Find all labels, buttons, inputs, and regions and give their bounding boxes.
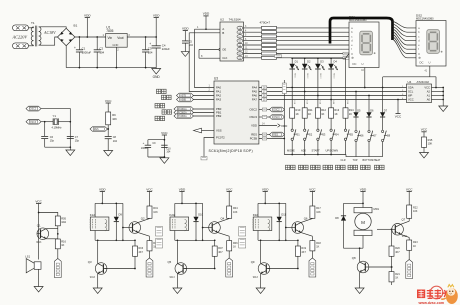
- svg-text:4K7: 4K7: [395, 251, 400, 254]
- U2 output pin QG: [237, 52, 243, 55]
- label contacts K2A lower: [156, 239, 163, 249]
- svg-text:VCC: VCC: [105, 99, 112, 103]
- svg-text:R16: R16: [61, 240, 66, 244]
- flag RES at MCU: [259, 134, 270, 136]
- svg-text:S5: S5: [350, 132, 354, 136]
- label heat alarm chinese: [157, 89, 161, 93]
- wire segment QA to DS1: [277, 27, 350, 29]
- resistor cell K1A emitter: [147, 241, 152, 251]
- svg-text:1K: 1K: [413, 245, 416, 248]
- svg-text:Q5: Q5: [168, 260, 172, 264]
- svg-text:K1A: K1A: [90, 213, 95, 217]
- svg-text:VDD: VDD: [251, 124, 257, 128]
- resistor R12 1K: [315, 108, 320, 118]
- svg-text:VDD: VDD: [84, 13, 91, 17]
- svg-text:Q1: Q1: [37, 223, 41, 227]
- svg-text:LS1: LS1: [25, 255, 30, 259]
- capacitor C8 104: [105, 136, 112, 138]
- connector J1 AC input line: [13, 25, 29, 31]
- svg-text:4.19MHz: 4.19MHz: [52, 127, 63, 130]
- svg-text:START: START: [312, 148, 321, 152]
- ground decoupling: [160, 158, 169, 164]
- svg-text:470Ω×7: 470Ω×7: [260, 20, 271, 24]
- wire U2 to MCU PA0: [195, 29, 215, 87]
- U2 output pin QC: [237, 35, 243, 38]
- svg-text:D9: D9: [119, 213, 123, 217]
- ground C5: [181, 52, 189, 57]
- wire U2 to MCU PA1: [189, 33, 214, 92]
- diode D5: [353, 112, 358, 117]
- U2 output pin QH: [237, 56, 243, 59]
- svg-text:Q3: Q3: [88, 260, 92, 264]
- resistor RN3: [262, 35, 277, 38]
- svg-text:S4: S4: [335, 132, 339, 136]
- svg-text:R05: R05: [61, 217, 66, 221]
- svg-text:9013: 9013: [36, 242, 42, 244]
- svg-text:AC220V: AC220V: [12, 35, 29, 40]
- flag PB1 net label: [174, 110, 194, 115]
- wire keypad column 5: [345, 58, 347, 108]
- svg-text:R10: R10: [296, 108, 301, 112]
- diode D9: [115, 203, 117, 216]
- switch S8: [381, 130, 383, 132]
- svg-text:PB2: PB2: [216, 114, 222, 118]
- svg-text:BOTTOM/HEAT: BOTTOM/HEAT: [363, 159, 381, 162]
- flag cell K2A output: [226, 258, 233, 277]
- wire fan bundle to DS2 pin QH: [393, 40, 417, 58]
- svg-text:D1: D1: [295, 60, 299, 64]
- U2 output pin QD: [237, 39, 243, 42]
- svg-text:S7: S7: [373, 134, 377, 138]
- ground reset block: [104, 151, 113, 157]
- label key chinese captions: [286, 165, 290, 169]
- wire U4 right common to ground: [442, 88, 444, 107]
- wire VCC drop on bus line 4: [397, 100, 399, 114]
- resistor motor base lower 1K: [389, 272, 394, 282]
- svg-text:SEG1: SEG1: [293, 73, 295, 79]
- svg-text:VDD: VDD: [153, 13, 160, 17]
- svg-text:B: B: [222, 31, 224, 35]
- resistor RN8: [262, 56, 277, 59]
- resistor motor collector 10K: [407, 205, 412, 218]
- svg-text:D2: D2: [307, 60, 311, 64]
- svg-text:AT24C02: AT24C02: [417, 80, 430, 84]
- svg-text:M01: M01: [374, 207, 380, 211]
- diode D6: [366, 112, 371, 117]
- resistor cell K2A emitter: [227, 241, 232, 251]
- svg-text:SCL: SCL: [408, 90, 414, 94]
- svg-text:10K: 10K: [413, 210, 418, 213]
- svg-text:VDD: VDD: [182, 26, 189, 30]
- resistor motor emitter 1K: [407, 240, 412, 250]
- svg-text:R13: R13: [334, 108, 339, 112]
- U2 output pin QF: [237, 48, 243, 51]
- svg-text:U2: U2: [220, 17, 224, 21]
- ground rail power section: [65, 46, 67, 68]
- wire U4 right pin VCC: [432, 87, 444, 89]
- svg-text:OSC3: OSC3: [30, 122, 37, 124]
- wire T1 secondary bottom to bridge: [39, 37, 58, 45]
- resistor RN5: [262, 44, 277, 47]
- flag cell K3A output: [309, 258, 316, 277]
- svg-text:VCC: VCC: [421, 128, 428, 132]
- ground keypad pullup: [420, 153, 429, 159]
- wire keypad column 1: [291, 69, 293, 108]
- svg-text:OSC3: OSC3: [273, 117, 280, 119]
- svg-text:1K: 1K: [233, 245, 236, 248]
- svg-text:4K7: 4K7: [218, 251, 223, 254]
- svg-text:220uF: 220uF: [162, 47, 170, 51]
- svg-text:CLR: CLR: [341, 159, 346, 162]
- diode D7: [380, 112, 385, 117]
- wire U4 right pin A2: [432, 91, 444, 93]
- capacitor C2 104: [96, 37, 98, 50]
- wire U2 OE pin: [199, 49, 219, 51]
- svg-text:10K: 10K: [112, 117, 117, 121]
- wire segment QB to DS1: [277, 31, 350, 33]
- wire motor cell top rail: [344, 202, 364, 204]
- svg-text:15p: 15p: [75, 140, 80, 143]
- svg-text:Vin: Vin: [108, 36, 113, 40]
- svg-text:Q9: Q9: [251, 260, 255, 264]
- svg-text:QD: QD: [238, 41, 242, 43]
- svg-text:9013: 9013: [170, 277, 176, 279]
- LED D3: [317, 58, 319, 64]
- wire U1 ground pin: [115, 47, 117, 67]
- bridge rectifier B1: [58, 28, 75, 45]
- wire motor bottom rail: [362, 236, 364, 249]
- svg-text:15p: 15p: [50, 140, 55, 143]
- svg-text:R07: R07: [218, 247, 223, 250]
- wire fan bundle to DS2 pin QA: [393, 22, 417, 28]
- svg-text:VDD: VDD: [203, 12, 210, 16]
- capacitor C6 15p: [44, 122, 46, 137]
- flag PB0 net label: [174, 107, 194, 112]
- switch S3: [317, 129, 319, 131]
- svg-text:OSC3: OSC3: [249, 115, 257, 119]
- svg-text:R9: R9: [112, 113, 116, 117]
- svg-text:R17: R17: [316, 207, 321, 210]
- svg-text:1K: 1K: [334, 112, 337, 116]
- svg-text:Y1: Y1: [53, 114, 57, 118]
- resistor RN7: [262, 52, 277, 55]
- svg-text:U: U: [429, 61, 431, 65]
- svg-text:9013: 9013: [90, 277, 96, 279]
- svg-text:R12: R12: [321, 108, 326, 112]
- svg-text:SEG4: SEG4: [332, 73, 334, 79]
- svg-text:D8: D8: [335, 216, 339, 220]
- svg-text:GND: GND: [153, 75, 161, 79]
- flag cell K1A output: [146, 258, 153, 277]
- svg-text:D7: D7: [384, 108, 388, 112]
- flag BELL net label: [54, 259, 61, 278]
- relay K2A: [174, 203, 176, 217]
- wire cell K2A tie vertical: [202, 203, 204, 240]
- switch S7: [368, 130, 370, 132]
- wire Q9 base: [267, 268, 298, 270]
- svg-text:R15: R15: [428, 138, 433, 142]
- svg-text:RES: RES: [273, 135, 278, 137]
- svg-text:SC61(8im)2(DIP18 SOP): SC61(8im)2(DIP18 SOP): [209, 149, 253, 153]
- label box on segment g wire: [343, 52, 351, 55]
- resistor RN6: [262, 48, 277, 51]
- resistor cell K1A base divider: [134, 240, 136, 246]
- resistor RN2: [262, 31, 277, 34]
- diode D10: [195, 203, 197, 216]
- svg-text:R23: R23: [413, 241, 418, 244]
- wire keypad diode column 8: [382, 111, 384, 113]
- svg-text:R01: R01: [153, 207, 158, 210]
- wire bus line 3 MCU PA6: [259, 95, 407, 97]
- svg-text:QH: QH: [238, 58, 242, 60]
- wire T1 secondary top to bridge: [39, 27, 66, 29]
- wire cell K1A top rail: [95, 202, 123, 204]
- flag OSC2 at MCU: [259, 109, 270, 111]
- svg-text:RES: RES: [94, 129, 99, 131]
- resistor R10 1K: [290, 108, 295, 118]
- wire segment QG to DS1: [277, 53, 350, 55]
- wire U2 pin A: [195, 28, 222, 30]
- svg-text:+: +: [143, 141, 145, 145]
- svg-text:VCC: VCC: [146, 187, 153, 191]
- DS2 seven segment digit: [427, 30, 440, 54]
- power label VDD at MCU: [259, 125, 277, 127]
- svg-text:Q2: Q2: [141, 216, 145, 220]
- diode D11: [278, 203, 280, 216]
- flag PA2 net label: [177, 93, 194, 98]
- svg-text:104: 104: [148, 50, 153, 54]
- svg-text:7805: 7805: [106, 29, 113, 33]
- LED D2: [304, 58, 306, 64]
- svg-text:OSC2: OSC2: [30, 109, 37, 111]
- svg-text:10Ω: 10Ω: [61, 220, 66, 224]
- wire cell K3A bottom rail: [258, 239, 298, 241]
- wire fan bundle to DS2 pin QB: [393, 24, 417, 32]
- ground speaker cell: [34, 287, 43, 293]
- label TDB on dp wire: [275, 55, 282, 58]
- resistor RN4: [262, 39, 277, 42]
- svg-text:S2: S2: [309, 132, 313, 136]
- svg-text:VCC: VCC: [161, 131, 168, 135]
- wire fan bundle to DS2 pin QE: [393, 32, 417, 45]
- wire segment QE to DS1: [277, 44, 350, 46]
- resistor R13 1K: [329, 108, 334, 118]
- svg-text:VCC: VCC: [309, 187, 316, 191]
- wire keypad common rail 1: [284, 154, 346, 156]
- flag RES reset: [90, 127, 108, 132]
- svg-text:DC: DC: [353, 62, 357, 66]
- wire cell K3A tie vertical: [285, 203, 287, 240]
- wire cell K1A bottom rail: [95, 239, 135, 241]
- wire keypad diode column 6: [355, 92, 357, 113]
- svg-text:R03: R03: [139, 247, 144, 250]
- svg-text:PC0B3A: PC0B3A: [178, 115, 187, 118]
- svg-text:SEG3: SEG3: [319, 73, 321, 79]
- LED D4: [330, 58, 332, 64]
- flag OSC3 crystal: [26, 119, 41, 124]
- svg-text:104: 104: [113, 140, 118, 143]
- svg-text:U3: U3: [214, 76, 218, 80]
- U2 output pin QB: [237, 31, 243, 34]
- svg-text:1K: 1K: [316, 245, 319, 248]
- resistor R5 10R: [55, 216, 60, 226]
- label box on segment dp wire: [343, 57, 351, 60]
- wire segment QH to DS1: [277, 57, 350, 59]
- wire keypad diode column 7: [368, 96, 370, 113]
- svg-text:VDD: VDD: [179, 187, 186, 191]
- resistor R9 10K: [106, 112, 111, 125]
- svg-text:A0: A0: [427, 98, 431, 102]
- svg-text:1K: 1K: [349, 112, 352, 116]
- svg-text:PC3B: PC3B: [250, 137, 257, 141]
- label contacts K2A upper: [156, 227, 163, 237]
- wire bus line 2 MCU PA5: [259, 91, 407, 93]
- U2 output pin QE: [237, 43, 243, 46]
- diode D8: [343, 203, 345, 215]
- wire Q7 base network: [377, 228, 392, 230]
- wire crystal ground rail: [45, 146, 71, 148]
- U2 output pin QA: [237, 26, 243, 29]
- svg-text:www.dzsc.com: www.dzsc.com: [418, 301, 445, 305]
- svg-text:A08B: A08B: [180, 99, 186, 102]
- svg-text:Q8: Q8: [352, 256, 356, 260]
- wire keypad left common vertical: [283, 80, 285, 155]
- flag OSC3 at MCU: [259, 116, 270, 118]
- svg-text:1000uF: 1000uF: [82, 50, 92, 54]
- wire fan bundle to DS2 pin QF: [393, 34, 417, 49]
- svg-text:PA3: PA3: [216, 98, 222, 102]
- svg-text:PC0T2: PC0T2: [216, 136, 225, 140]
- wire bus line 1 MCU PA4: [259, 87, 407, 89]
- svg-text:R20: R20: [395, 247, 400, 250]
- wire cell K2A top rail: [175, 202, 203, 204]
- ground GND power section: [152, 69, 161, 75]
- svg-text:U4: U4: [408, 80, 412, 84]
- resistor cell K3A collector: [310, 206, 315, 218]
- wire MCU PC3B to key common: [259, 138, 284, 140]
- svg-text:WP: WP: [408, 94, 413, 98]
- resistor cell K3A emitter: [310, 241, 315, 251]
- svg-text:VCC: VCC: [226, 187, 233, 191]
- LED D1: [291, 58, 293, 64]
- svg-text:Q6: Q6: [304, 216, 308, 220]
- svg-text:+: +: [74, 46, 76, 50]
- svg-text:D5: D5: [357, 108, 361, 112]
- wire Q6 emitter column: [311, 236, 313, 240]
- wire decoupling ground: [148, 156, 165, 158]
- wire bus line 4 MCU PA7: [259, 99, 407, 101]
- svg-text:VCC: VCC: [406, 187, 413, 191]
- wire Q8 base: [369, 266, 393, 268]
- svg-text:R04: R04: [233, 207, 238, 210]
- flag motor cell output: [406, 260, 413, 279]
- resistor cell K2A collector: [227, 206, 232, 218]
- svg-text:R19: R19: [301, 247, 306, 250]
- ground cell K2A: [173, 288, 182, 294]
- switch S1: [291, 129, 293, 131]
- svg-text:D6: D6: [370, 108, 374, 112]
- svg-text:OSC2: OSC2: [273, 110, 280, 112]
- svg-text:1K: 1K: [395, 276, 398, 279]
- svg-text:VDD: VDD: [262, 187, 269, 191]
- capacitor C7 15p: [67, 135, 74, 137]
- wire U2 CLK pin: [199, 57, 222, 59]
- svg-text:CLK: CLK: [222, 56, 227, 60]
- wire keypad column 2: [304, 69, 306, 108]
- wire cell K2A bottom rail: [175, 239, 215, 241]
- svg-text:10K: 10K: [316, 211, 321, 214]
- svg-text:U: U: [362, 62, 364, 66]
- wire segment QF to DS1: [277, 48, 350, 50]
- svg-text:74LS164: 74LS164: [229, 17, 241, 21]
- wire DS2 common pin: [429, 66, 431, 77]
- flag OSC2 crystal: [26, 106, 41, 111]
- ground cell K1A: [93, 288, 102, 294]
- wire fan bundle to DS2 pin QD: [393, 29, 417, 41]
- svg-text:DC: DC: [420, 61, 424, 65]
- svg-text:SDA: SDA: [408, 86, 414, 90]
- DS1 seven segment digit: [360, 31, 373, 55]
- svg-text:A1: A1: [427, 94, 431, 98]
- resistor cell K1A collector: [147, 206, 152, 218]
- switch S2: [304, 129, 306, 131]
- svg-text:R22: R22: [413, 206, 418, 209]
- wire cell K1A tie vertical: [122, 203, 124, 240]
- svg-text:R11: R11: [308, 108, 313, 112]
- switch S6: [355, 130, 357, 132]
- switch S4: [330, 129, 332, 131]
- wire speaker cell top branch: [39, 213, 58, 217]
- switch S5: [344, 129, 346, 131]
- svg-text:S8: S8: [387, 134, 391, 138]
- label forward reverse chinese: [155, 104, 159, 108]
- svg-text:B1: B1: [74, 24, 78, 28]
- resistor R14 1K: [343, 108, 348, 118]
- resistor R11 1K: [302, 108, 307, 118]
- svg-text:QC: QC: [238, 36, 242, 38]
- wire MCU PC0T2 pin: [204, 138, 214, 157]
- capacitor C1 1000uF: [78, 37, 80, 50]
- capacitor C3 104: [145, 37, 147, 50]
- svg-text:VCC: VCC: [395, 115, 402, 119]
- flag PB2 net label: [174, 114, 194, 119]
- svg-text:1K: 1K: [296, 112, 299, 116]
- svg-text:AC18V: AC18V: [43, 30, 56, 35]
- wire DS1 common pin down to bus: [364, 68, 366, 88]
- svg-text:VCC: VCC: [35, 199, 42, 203]
- svg-text:PA7: PA7: [252, 98, 258, 102]
- svg-text:OSC2: OSC2: [249, 108, 257, 112]
- svg-text:S6: S6: [360, 134, 364, 138]
- wire keypad column 3: [317, 69, 319, 108]
- svg-text:R06: R06: [233, 242, 238, 245]
- wire fan bundle to DS2 pin QG: [393, 37, 417, 54]
- svg-text:100uF: 100uF: [141, 147, 148, 150]
- svg-text:VDD: VDD: [99, 187, 106, 191]
- svg-text:+: +: [149, 42, 151, 46]
- wire U2 pin B: [189, 32, 222, 34]
- svg-text:R14: R14: [349, 108, 354, 112]
- svg-text:1K: 1K: [321, 112, 324, 116]
- wire U4 right pin A1: [432, 95, 444, 97]
- svg-text:10K: 10K: [233, 211, 238, 214]
- svg-text:9013: 9013: [253, 277, 259, 279]
- svg-text:10K: 10K: [428, 141, 433, 145]
- svg-text:1K: 1K: [61, 243, 64, 247]
- label contacts K3A lower: [239, 239, 246, 249]
- svg-text:S3: S3: [322, 132, 326, 136]
- svg-text:T1: T1: [31, 21, 35, 25]
